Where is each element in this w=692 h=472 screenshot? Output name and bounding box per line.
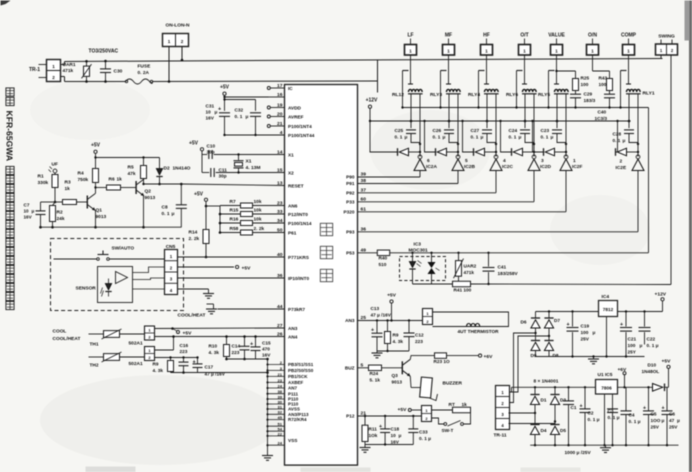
capacitor C5 100u/25V [643,387,665,445]
svg-text:μ: μ [443,135,446,140]
ground (AN3 block) [372,351,383,358]
diode D3 [550,387,566,404]
switch SW/AUTO [54,246,165,261]
+5V supply (resistor bank) [194,192,208,230]
svg-text:4: 4 [503,158,506,164]
svg-text:AVSS: AVSS [288,407,300,412]
capacitor C8 0.1u [162,183,187,228]
relay RL12 coil [408,89,423,93]
svg-text:R2: R2 [57,210,63,216]
svg-text:47k: 47k [128,171,136,177]
diode (relay RL12) [398,148,421,156]
svg-text:25Y: 25Y [628,350,637,355]
svg-text:6: 6 [427,158,430,164]
svg-text:19: 19 [277,102,283,108]
svg-text:2. 2k: 2. 2k [254,226,265,232]
svg-text:R40: R40 [379,256,388,261]
svg-text:RL12: RL12 [392,92,404,98]
triac (IC3) [428,252,440,284]
svg-text:C30: C30 [114,69,123,75]
scan smudge bottom 1 [86,467,136,472]
svg-text:VALUE: VALUE [548,33,565,39]
label RLY3 [430,92,442,98]
photodiode (sensor) [101,279,112,297]
capacitor C26 0.1u [433,121,459,144]
inverter IC2C [490,155,502,171]
svg-text:+5V: +5V [91,143,101,149]
svg-text:8 × 1N4001: 8 × 1N4001 [534,379,559,385]
sensor wires to CN5 [133,267,165,289]
svg-text:+: + [567,322,570,328]
svg-text:C41: C41 [498,265,507,270]
svg-text:P111: P111 [288,391,299,396]
wire Q1 emitter [94,211,97,229]
diode D8 [544,341,558,359]
wire AC-L lower [61,77,378,82]
wire 7812 gnd pin [606,317,608,357]
wire CN5 pin3 to chip pin36 [178,277,285,279]
svg-text:AN3: AN3 [345,318,355,323]
wire RLY6 coil right [533,94,535,157]
svg-text:P93: P93 [346,229,355,234]
resistor R11 10k [362,416,378,445]
svg-text:C3: C3 [608,409,614,414]
svg-text:47 μ /16V: 47 μ /16V [371,313,392,318]
svg-text:C6: C6 [669,412,675,417]
wire P53 row [358,252,378,254]
svg-text:9013: 9013 [96,214,107,220]
label IC2E [616,159,627,172]
svg-text:AVDD: AVDD [288,106,302,111]
capacitor C41 183/258V [483,253,519,284]
photodiode UF [49,162,58,175]
svg-text:1N48OL: 1N48OL [642,369,660,374]
svg-text:AN4: AN4 [288,335,298,340]
svg-text:O/N: O/N [588,33,597,39]
wire bridge AC 2 [509,336,550,392]
label IC2F [572,158,582,170]
svg-text:P100/1NT4: P100/1NT4 [288,124,312,129]
wire RLY6 coil left [524,94,527,123]
bridge mid wires [534,328,550,341]
svg-text:KFR-65GWA: KFR-65GWA [5,111,15,162]
svg-text:P12/INT0: P12/INT0 [288,212,308,217]
connector TR-11 [494,386,510,439]
wire rail 5V top caps [649,386,668,388]
svg-text:D5: D5 [560,428,566,433]
resistor R9 4.3k [153,356,174,373]
svg-text:COOL: COOL [53,329,67,335]
capacitor C12 223 [404,321,424,352]
svg-text:1: 1 [168,39,171,44]
svg-text:+: + [193,360,196,366]
connector LF [405,33,417,56]
thermistor TH2 502A1 [89,352,145,369]
thermistor TH1 502A1 [89,329,143,348]
svg-text:2. 2k: 2. 2k [189,236,200,242]
connector SWING [656,34,678,56]
svg-text:7806: 7806 [601,385,612,390]
diode (relay RLY3) [436,148,459,156]
wire AN3 gnd rail [377,350,409,352]
wire opto bottom row [413,283,672,285]
capacitor C31 [206,104,231,136]
svg-text:UAR2: UAR2 [464,264,477,269]
svg-text:0. 1 μ: 0. 1 μ [608,415,620,420]
wire Q3 emitter [410,376,420,387]
svg-text:SW-T: SW-T [442,428,454,433]
svg-text:C4: C4 [629,413,635,418]
capacitor C15 470/16V [250,335,271,359]
svg-text:1000 μ /25V: 1000 μ /25V [565,450,592,456]
svg-text:TH2: TH2 [90,363,99,369]
svg-text:16V: 16V [262,353,271,358]
svg-text:AN7: AN7 [288,386,297,391]
svg-text:C28: C28 [613,132,622,137]
svg-text:μ: μ [481,135,484,140]
svg-text:AN6: AN6 [288,204,298,209]
bus +12V left [366,98,378,122]
resistor R25 100 [573,76,590,91]
wire rail 12V [536,310,663,312]
+6V tap [618,367,627,387]
wire RLY5 coil right [565,94,567,157]
resistor R5 47k [128,158,147,179]
inverter IC2E [632,155,644,171]
wire IC2A to chip [358,171,421,178]
wire diode pull IC2F [531,120,543,152]
svg-text:C14: C14 [232,344,241,349]
svg-text:C12: C12 [415,333,424,338]
svg-text:330k: 330k [38,180,49,186]
svg-text:TR-11: TR-11 [494,433,507,439]
connector VALUE [548,33,565,56]
svg-text:4. 13M: 4. 13M [246,165,261,171]
svg-text:RT: RT [449,402,455,408]
label 1000u/25V [565,450,592,456]
connector (thermistor plug) [423,309,433,325]
capacitor C23 0.1u [541,121,567,144]
svg-text:+: + [379,424,382,430]
svg-text:+6V: +6V [618,367,627,373]
svg-text:C32: C32 [235,108,244,113]
wire diode pull IC2D [499,120,511,152]
svg-text:+12V: +12V [655,292,667,298]
svg-text:D7: D7 [554,318,560,323]
svg-text:10k: 10k [254,199,262,205]
svg-text:0. 1 μ: 0. 1 μ [419,436,431,441]
label IC2B [464,158,475,170]
svg-text:R5: R5 [128,165,134,171]
svg-text:IC2C: IC2C [502,164,513,170]
svg-text:223: 223 [415,339,423,344]
relay RLY6 coil [522,89,537,93]
svg-text:μ: μ [405,135,408,140]
svg-text:D2: D2 [164,166,170,172]
wire TH2 pin2 row [155,356,198,358]
svg-text:+6V: +6V [484,354,494,360]
wire BUZ row [358,367,369,369]
scan edge right [685,1,692,472]
svg-text:RLY3: RLY3 [430,92,442,98]
capacitor C6 47u/25V [662,387,681,445]
svg-text:471k: 471k [63,68,74,74]
svg-text:+5V: +5V [398,407,408,413]
svg-text:D6: D6 [521,320,527,325]
wire CN5 pin4 ground [178,289,209,294]
svg-text:21: 21 [277,121,283,127]
wire RLY1 coil left [628,94,631,123]
varistor UAR1 471k [63,60,92,83]
svg-text:100: 100 [599,82,607,87]
svg-text:25V: 25V [581,337,590,342]
wire CN5 pin2 +5V [178,265,252,271]
svg-text:4UT THERMISTOR: 4UT THERMISTOR [458,329,500,334]
wire TH1 pin1 row (AN3) [155,327,285,330]
svg-text:R10: R10 [209,344,218,349]
svg-text:R58: R58 [230,226,239,232]
svg-text:0. 1: 0. 1 [613,138,621,143]
title text (Gree KFR-65GWA schematic, vertical) [5,88,15,310]
svg-text:45: 45 [278,415,283,420]
diode D1 [530,387,546,404]
svg-text:P61: P61 [288,231,297,236]
connector O/T [519,33,531,56]
svg-text:C18: C18 [391,427,400,432]
wire Q3 collector [410,356,434,360]
transistor Q1 9013 [87,194,106,221]
svg-text:7812: 7812 [603,307,614,312]
label COOL/HEAT [53,336,81,342]
capacitor C32 0.1u [235,100,262,136]
connector O/N [587,33,599,56]
diode D4 [530,425,546,446]
svg-text:μ: μ [551,135,554,140]
thermistor 4UT [458,324,500,335]
svg-text:1OO: 1OO [651,418,661,423]
svg-text:5: 5 [465,158,468,164]
svg-text:C27: C27 [471,128,480,133]
svg-text:510: 510 [379,262,387,267]
svg-text:1N414O: 1N414O [173,166,191,172]
wire P53 row right [390,252,649,254]
chip bottom-left pin cluster [266,360,313,446]
svg-text:502A1: 502A1 [129,341,143,347]
capacitor C19 100u/25V [567,312,596,357]
svg-text:MF: MF [445,33,452,39]
relay RLY4 contact [477,71,484,109]
cluster common wire [267,359,269,453]
svg-text:+: + [218,107,221,113]
svg-text:COOL/HEAT: COOL/HEAT [178,313,206,319]
svg-text:10: 10 [391,433,397,438]
svg-text:1k: 1k [65,186,71,192]
diode D5 [550,425,566,446]
dashed box (remote sensor unit) [51,239,184,311]
svg-text:P12: P12 [346,414,355,419]
svg-text:2: 2 [181,39,184,44]
svg-text:1Ok: 1Ok [369,433,378,438]
svg-text:TO3/250VAC: TO3/250VAC [89,49,119,55]
wire CN5 pin1 to chip pin40 [178,256,285,258]
svg-text:Q3: Q3 [392,373,399,378]
svg-text:C8: C8 [162,205,168,211]
diode (relay RLY5) [544,148,567,156]
svg-text:C29: C29 [584,92,593,97]
svg-text:R1: R1 [38,174,44,180]
wire SWING pin2 down [670,55,672,285]
wire VALUE branch [555,70,575,79]
connector TR-1 [29,60,61,82]
svg-text:30p: 30p [207,150,215,155]
svg-text:+12V: +12V [366,98,378,104]
resistor R58 2. 2k [219,226,285,235]
svg-text:C22: C22 [647,337,656,342]
wire IC2B to chip [358,171,459,184]
svg-text:+5V: +5V [189,141,199,147]
svg-text:IC2D: IC2D [540,164,551,170]
svg-text:C31: C31 [206,104,215,109]
svg-text:RLY5: RLY5 [538,92,550,98]
svg-text:10: 10 [206,110,212,115]
resistor R15 10k [219,208,285,217]
inverter IC2A [414,155,426,171]
relay RLY5 contact [547,71,554,109]
svg-text:0. 1 μ: 0. 1 μ [629,419,641,424]
label C40 1C3/3 [595,110,608,122]
resistor RT 1k [432,402,471,413]
capacitor C27 0.1u [471,121,497,144]
svg-text:1k: 1k [462,402,468,408]
svg-text:2: 2 [52,75,55,80]
svg-text:C25: C25 [395,128,404,133]
svg-text:5. 1k: 5. 1k [370,378,381,383]
svg-text:25V: 25V [651,425,660,430]
wire Q2 collector out [142,179,181,185]
+5V supply (RT) [398,407,422,413]
svg-text:C17: C17 [205,365,214,370]
diode D2 1N4140 [156,158,190,186]
svg-text:O/T: O/T [520,33,528,39]
svg-text:16V: 16V [391,440,400,445]
svg-text:22: 22 [278,431,283,436]
label IC2C [502,158,513,170]
inverter IC2F [560,155,572,171]
svg-text:4. 3k: 4. 3k [153,368,164,373]
label COOL/HEAT + ground tap [178,304,285,319]
regulator U1 IC5 7806 [596,372,618,394]
svg-text:μ: μ [677,418,680,423]
wire rail 5V in [512,386,596,392]
svg-text:IC2E: IC2E [616,165,627,171]
sensor box [76,267,133,303]
relay RLY5 coil [554,89,569,93]
svg-text:R25: R25 [581,76,590,81]
capacitor C24 0.1u [509,121,535,144]
svg-text:9013: 9013 [145,195,156,201]
wire RLY5 coil left [556,94,559,123]
svg-text:0. 2A: 0. 2A [138,70,150,76]
svg-text:C11: C11 [219,168,228,173]
svg-text:C15: C15 [262,341,271,346]
svg-text:17: 17 [277,83,283,89]
svg-text:TR-1: TR-1 [29,67,40,73]
svg-text:471k: 471k [464,270,475,275]
wire IC2D to chip [358,171,535,202]
svg-text:D4: D4 [541,428,547,433]
svg-text:P33: P33 [346,199,355,204]
diode D9 [531,341,541,359]
wire pin16 [223,96,284,98]
svg-text:Q1: Q1 [96,208,103,214]
svg-text:μ: μ [623,138,626,143]
diode (relay RLY1) [616,148,639,156]
diode D7 [544,312,560,329]
+5V tap (thermistors) [173,329,193,337]
svg-text:X2: X2 [288,171,294,176]
label RLY5 [538,92,550,98]
svg-text:+: + [580,404,583,410]
svg-text:223: 223 [232,350,240,355]
fuse FUSE 0.2A [125,64,152,85]
svg-text:C10: C10 [207,144,216,149]
svg-text:24: 24 [278,383,283,388]
svg-text:+: + [371,328,374,334]
svg-text:D10: D10 [648,363,657,368]
wire pin4 row [223,134,284,136]
wire bus1 to opto top [648,108,650,253]
svg-text:C1: C1 [571,405,577,410]
svg-text:R15: R15 [230,208,239,214]
relay RLY4 coil [484,89,499,93]
svg-text:+: + [643,406,646,412]
wire AN3 row [358,319,423,321]
bridge2 mid wires [534,405,556,425]
svg-text:0. 1: 0. 1 [541,135,549,140]
wire P12 row [358,415,422,417]
resistor R4 750k [78,169,99,194]
svg-text:μ: μ [246,114,249,119]
svg-text:μ: μ [399,433,402,438]
chip label (main chip, vertical CJK) [320,223,332,281]
scan smudge bottom 2 [301,468,371,472]
label 8x1N4001 [534,379,559,385]
wire drop x377 [377,60,379,93]
svg-text:P771KRS: P771KRS [288,255,309,260]
connector TH1 plug [145,326,155,340]
svg-text:PB2/S0/SS0: PB2/S0/SS0 [288,368,314,373]
LED (IC3) [409,253,421,284]
label RLY4 [468,92,480,98]
+5V supply (IR amp) [91,143,101,169]
label RLY6 [506,92,518,98]
capacitor C22 0.1u [639,312,659,349]
capacitor C25 0.1u [395,121,421,144]
wire diode pull IC2E [616,120,619,152]
svg-text:3: 3 [541,158,544,164]
wire thermistor loop [433,312,509,327]
main chip U-IC body [285,85,358,466]
regulator IC4 7812 [599,294,618,317]
svg-text:0. 1 μ: 0. 1 μ [647,343,659,348]
wire RLY3 coil right [457,94,459,157]
wire RLY4 coil right [495,94,497,157]
svg-text:750k: 750k [78,177,89,183]
svg-text:+5V: +5V [220,85,230,91]
resistor R40 510 [377,250,389,267]
svg-text:D9: D9 [531,353,537,358]
capacitor C10 30p [202,144,285,160]
